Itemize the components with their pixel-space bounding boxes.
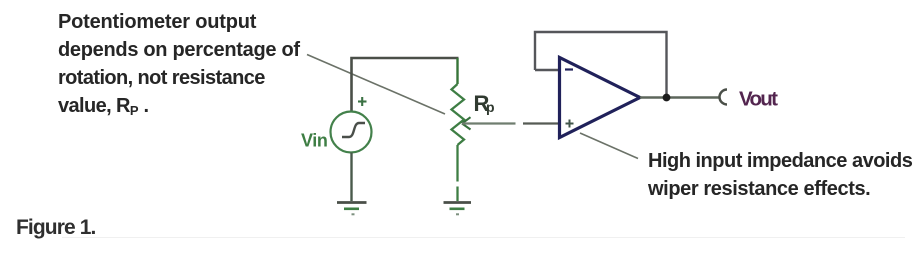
wiper arrow of potentiometer — [462, 117, 471, 129]
wire: wiper to op-amp + input (with small gap) — [462, 122, 516, 124]
feedback wire loop (output to - input) — [535, 32, 667, 98]
svg-text:p: p — [486, 99, 495, 115]
op-amp U1 — [560, 58, 641, 138]
junction node (feedback tap) — [663, 94, 671, 102]
op-amp - input mark — [565, 68, 573, 70]
ground (under Vin) — [337, 203, 367, 215]
leader line from note to potentiometer — [307, 55, 445, 115]
note text: high input impedance note — [648, 147, 912, 203]
voltage source Vin — [331, 112, 372, 153]
svg-text:Vout: Vout — [739, 88, 778, 111]
note text: potentiometer output note — [58, 8, 300, 125]
leader line from op-amp + input to note — [580, 133, 638, 159]
potentiometer R_P — [452, 84, 465, 145]
wire: op-amp output — [640, 96, 719, 98]
plus polarity mark of Vin — [358, 97, 367, 106]
wire — [456, 187, 458, 202]
wire: down to potentiometer top — [456, 58, 458, 84]
wire: Vin bottom to ground — [350, 153, 352, 202]
faint horizontal rule — [62, 237, 905, 238]
svg-text:Vin: Vin — [301, 131, 327, 151]
wire: potentiometer bottom to ground — [456, 145, 458, 182]
op-amp + input mark — [566, 120, 574, 128]
ground (under potentiometer) — [444, 203, 472, 215]
caption: Figure 1. — [16, 214, 95, 242]
wire stub to - input — [535, 69, 560, 71]
wire: Vin top to potentiometer top — [352, 58, 459, 112]
output terminal mark — [720, 90, 727, 105]
